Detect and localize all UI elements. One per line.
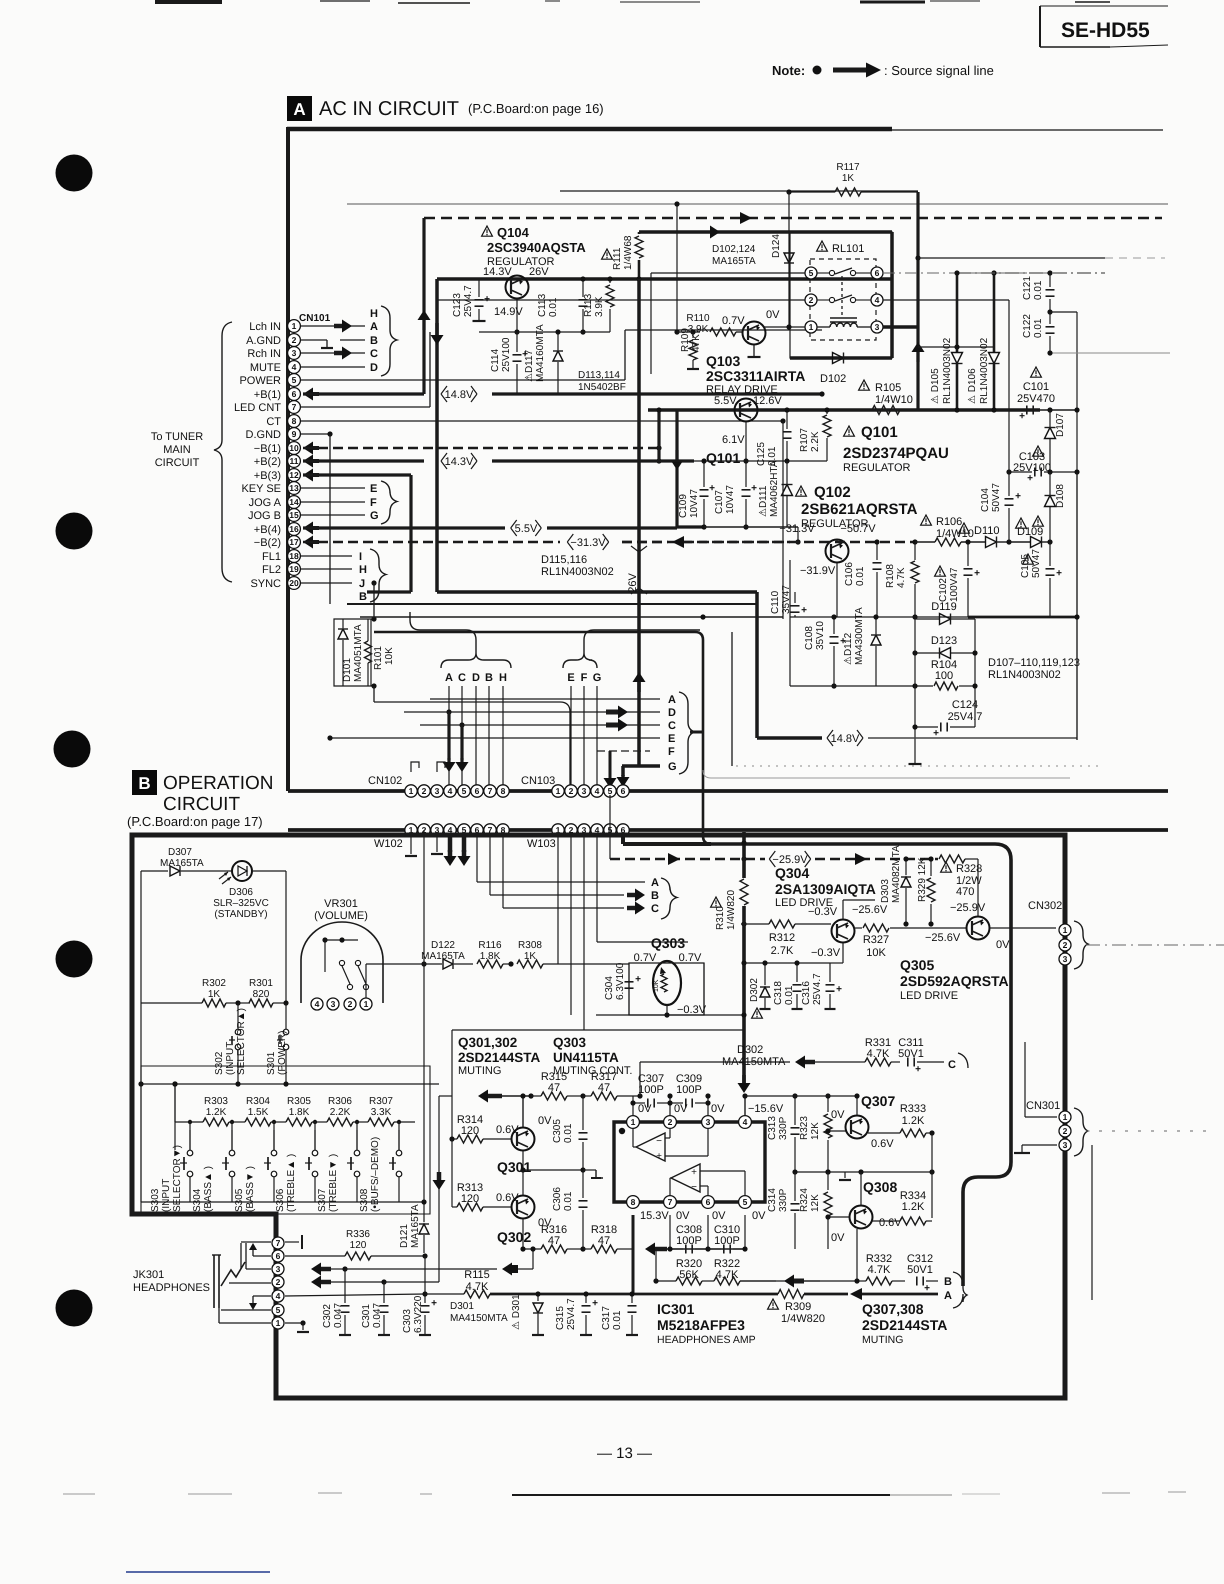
- rows to right letters: [404, 711, 660, 713]
- svg-text:5: 5: [743, 1197, 748, 1207]
- wire D122 row: [365, 964, 367, 998]
- svg-text:(INPUT: (INPUT: [161, 1179, 172, 1212]
- svg-text:— 13 —: — 13 —: [597, 1445, 652, 1462]
- relay pin 5: [805, 267, 817, 279]
- svg-text:3: 3: [331, 999, 336, 1009]
- svg-text:−B(1): −B(1): [254, 443, 281, 455]
- bus row W102: [288, 828, 1168, 832]
- svg-text:(BASS▲ ): (BASS▲ ): [203, 1166, 214, 1212]
- opamp 1: [636, 1133, 665, 1161]
- svg-text:−31.3V: −31.3V: [779, 523, 815, 535]
- svg-text:B: B: [138, 774, 150, 793]
- svg-text:−0.3V: −0.3V: [808, 906, 838, 918]
- node wire under Q102: [836, 580, 838, 617]
- svg-text:14.8V: 14.8V: [445, 389, 474, 401]
- tuner harness brace: [214, 322, 232, 582]
- svg-text:C122: C122: [1022, 314, 1033, 338]
- relay pin3 to bus thick: [883, 325, 918, 329]
- svg-text:+: +: [1027, 473, 1033, 484]
- svg-text:VR301: VR301: [324, 898, 358, 910]
- svg-text:D: D: [472, 672, 480, 684]
- wire Q303 bottom: [629, 1014, 704, 1016]
- transistor Q104: [506, 276, 529, 299]
- svg-text:0.01: 0.01: [563, 1191, 574, 1211]
- wire pin7 LED CNT: [301, 406, 430, 408]
- svg-text:(BASS▼ ): (BASS▼ ): [245, 1166, 256, 1212]
- svg-text:1N5402BF: 1N5402BF: [578, 382, 626, 393]
- svg-text:47: 47: [548, 1235, 560, 1247]
- svg-text:HEADPHONES: HEADPHONES: [133, 1282, 210, 1294]
- svg-text:(STANDBY): (STANDBY): [214, 909, 267, 920]
- svg-text:C108: C108: [804, 626, 815, 650]
- relay actuator dashed: [841, 276, 843, 318]
- svg-text:I: I: [359, 551, 362, 563]
- svg-text:16: 16: [289, 524, 299, 534]
- svg-text:RL101: RL101: [832, 243, 864, 255]
- jack tip contacts: [240, 1243, 242, 1269]
- svg-text:3: 3: [1063, 1140, 1068, 1150]
- svg-text:14.9V: 14.9V: [494, 306, 523, 318]
- svg-text:Q307: Q307: [861, 1093, 895, 1109]
- binder hole: [54, 731, 91, 768]
- svg-text:2: 2: [422, 786, 427, 796]
- Q308 emitter down: [856, 1229, 858, 1281]
- svg-text:+: +: [484, 294, 490, 305]
- dashed bus -25.9V: [609, 795, 611, 859]
- row A wire: [430, 698, 660, 700]
- bus hook to jack line: [439, 1095, 452, 1097]
- resistor R310 1/4W820: [711, 897, 722, 907]
- wire from D121 up: [423, 964, 425, 1202]
- svg-text:⚠ D301: ⚠ D301: [511, 1294, 522, 1330]
- svg-text:1K: 1K: [524, 951, 537, 962]
- svg-text:1: 1: [631, 1117, 636, 1127]
- switch row wiring: [175, 1121, 203, 1123]
- svg-text:100P: 100P: [714, 1235, 740, 1247]
- transistor Q304 symbol: [832, 920, 855, 943]
- svg-text:CN101: CN101: [299, 313, 331, 324]
- svg-text:0.7V: 0.7V: [679, 952, 702, 964]
- svg-text:R113: R113: [583, 293, 594, 317]
- relay pin 1: [805, 321, 817, 333]
- svg-text:S302: S302: [214, 1051, 225, 1075]
- svg-text:D302: D302: [749, 978, 760, 1002]
- svg-text:C105: C105: [1020, 554, 1031, 578]
- svg-text:1K: 1K: [208, 989, 221, 1000]
- svg-text:+: +: [924, 1283, 930, 1294]
- wire pin4 to D: [301, 366, 365, 368]
- transistor Q302: [512, 1196, 535, 1219]
- svg-text:⚠D111: ⚠D111: [758, 485, 769, 517]
- svg-text:E: E: [668, 733, 675, 745]
- svg-text:2SD2144STA: 2SD2144STA: [458, 1050, 541, 1065]
- arrow down to CN103 pin6 thick: [621, 766, 625, 776]
- svg-text:F: F: [370, 497, 377, 509]
- svg-text:A: A: [651, 877, 659, 889]
- svg-text:1/4W820: 1/4W820: [781, 1313, 825, 1325]
- svg-text:10V47: 10V47: [689, 489, 700, 518]
- svg-text:47: 47: [598, 1235, 610, 1247]
- svg-text:C106: C106: [844, 562, 855, 586]
- svg-text:−31.9V: −31.9V: [800, 565, 836, 577]
- svg-text:S301: S301: [266, 1051, 277, 1075]
- svg-text:RL1N4003N02: RL1N4003N02: [541, 566, 614, 578]
- binder hole: [56, 941, 93, 978]
- svg-text:Q305: Q305: [900, 957, 934, 973]
- svg-text:4: 4: [292, 362, 297, 372]
- svg-text:C: C: [370, 348, 378, 360]
- collector bus 26V: [437, 277, 892, 281]
- svg-text:R307: R307: [369, 1096, 393, 1107]
- svg-text:D113,114: D113,114: [578, 370, 620, 381]
- vertical from rail 204: [676, 204, 678, 332]
- relay drive bus: [712, 231, 720, 233]
- Q307 collector line up: [856, 1096, 858, 1115]
- opamp 2: [671, 1164, 700, 1192]
- wire D105 D106 top: [918, 346, 994, 348]
- svg-text:+: +: [1056, 568, 1062, 579]
- wire pin8 CT: [301, 420, 783, 422]
- wire relay pin5 row: [651, 272, 805, 274]
- bottom row 527: [704, 526, 798, 528]
- svg-text:D108: D108: [1055, 484, 1066, 508]
- svg-text:14.8V: 14.8V: [831, 733, 860, 745]
- transistor Q102 labels: [796, 486, 807, 496]
- harness rail 604: [347, 603, 757, 605]
- LED D306 standby: [232, 861, 252, 881]
- svg-text:100: 100: [935, 670, 953, 682]
- svg-text:10: 10: [289, 443, 299, 453]
- svg-text:CN102: CN102: [368, 775, 402, 787]
- svg-text:25V4.7: 25V4.7: [812, 973, 823, 1005]
- svg-text:+: +: [801, 605, 807, 616]
- svg-text:R117: R117: [836, 162, 860, 173]
- svg-text:15: 15: [289, 510, 299, 520]
- svg-text:−: −: [656, 1136, 662, 1147]
- svg-text:H: H: [370, 308, 378, 320]
- svg-text:4: 4: [276, 1291, 281, 1301]
- wire base row Q304: [741, 921, 746, 926]
- transistor Q104 labels: [482, 226, 493, 236]
- svg-text:120: 120: [350, 1240, 367, 1251]
- svg-text:1.2K: 1.2K: [902, 1201, 925, 1213]
- svg-text:−B(2): −B(2): [254, 537, 281, 549]
- svg-text:−25.9V: −25.9V: [950, 902, 986, 914]
- svg-text:2: 2: [348, 999, 353, 1009]
- svg-text:2: 2: [292, 335, 297, 345]
- jack spring contact: [221, 1262, 245, 1286]
- svg-text:1: 1: [276, 1318, 281, 1328]
- wire FL1 to I: [301, 555, 352, 557]
- svg-text:R105: R105: [875, 382, 901, 394]
- svg-text:⚠D117: ⚠D117: [524, 349, 535, 382]
- svg-text:+: +: [1019, 411, 1025, 422]
- svg-text:+: +: [751, 483, 757, 494]
- svg-text:C101: C101: [1023, 381, 1049, 393]
- svg-text:D124: D124: [771, 234, 782, 258]
- svg-text:330P: 330P: [778, 1116, 789, 1140]
- svg-text:4: 4: [315, 999, 320, 1009]
- bus row CN102: [288, 789, 1168, 793]
- wire pin5 POWER: [301, 379, 625, 381]
- svg-text:2SB621AQRSTA: 2SB621AQRSTA: [801, 501, 918, 518]
- svg-text:R327: R327: [863, 934, 889, 946]
- svg-text:Q307,308: Q307,308: [862, 1301, 924, 1317]
- svg-text:0V: 0V: [711, 1103, 725, 1115]
- svg-text:6: 6: [475, 786, 480, 796]
- wire SYNC to J: [301, 582, 352, 584]
- section label A: [287, 96, 312, 121]
- svg-text:W103: W103: [527, 838, 556, 850]
- D302 C318 C316 network: [744, 962, 830, 964]
- binder hole: [56, 1290, 93, 1327]
- svg-text:5.5V: 5.5V: [515, 523, 538, 535]
- wire pin9 D.GND: [301, 433, 330, 435]
- dotted row 766: [736, 765, 1100, 767]
- svg-text:D122: D122: [431, 940, 455, 951]
- svg-text:Q103: Q103: [706, 353, 740, 369]
- wire pin1 to A: [301, 325, 365, 327]
- svg-text:B: B: [359, 591, 367, 603]
- svg-text:C303: C303: [402, 1309, 413, 1333]
- bus +B(2) 14.3V: [311, 459, 319, 463]
- bus +B(4) 5.5V: [311, 526, 319, 530]
- diode D102 bottom: [789, 357, 791, 359]
- svg-text:E: E: [567, 672, 574, 684]
- wire relay row2 left: [437, 299, 805, 301]
- footer blue line: [126, 1571, 270, 1573]
- svg-text:25V470: 25V470: [1017, 393, 1055, 405]
- svg-text:25V4.7: 25V4.7: [566, 1298, 577, 1330]
- transistor Q103: [743, 322, 766, 345]
- resistor R328 1/2W 470: [941, 862, 952, 872]
- svg-text:C124: C124: [952, 699, 978, 711]
- main 12.6V bus: [648, 408, 918, 412]
- jack pins: [272, 1237, 284, 1249]
- svg-text:3: 3: [292, 348, 297, 358]
- switch bottom bus: [141, 1201, 424, 1203]
- svg-text:+: +: [915, 1064, 921, 1075]
- pin8 thick down: [632, 1215, 635, 1294]
- svg-text:C318: C318: [773, 981, 784, 1005]
- svg-text:C306: C306: [552, 1187, 563, 1211]
- svg-text:5: 5: [292, 375, 297, 385]
- svg-text:D110: D110: [974, 525, 999, 537]
- jack pin4 contact: [253, 1295, 271, 1297]
- svg-text:B: B: [944, 1276, 952, 1288]
- svg-text:FL1: FL1: [262, 551, 281, 563]
- svg-text:100P: 100P: [638, 1084, 664, 1096]
- section B border: [132, 835, 1065, 1398]
- svg-text:35V10: 35V10: [815, 621, 826, 650]
- svg-text:2SD2374PQAU: 2SD2374PQAU: [843, 445, 949, 462]
- svg-text:0.01: 0.01: [1033, 280, 1044, 300]
- svg-text:47: 47: [548, 1082, 560, 1094]
- footer rule: [512, 1494, 890, 1496]
- svg-text:3: 3: [276, 1264, 281, 1274]
- svg-text:1/4W820: 1/4W820: [726, 890, 737, 930]
- svg-text:100P: 100P: [676, 1235, 702, 1247]
- svg-text:1.2K: 1.2K: [902, 1115, 925, 1127]
- svg-text:0V: 0V: [712, 1210, 726, 1222]
- svg-text:R333: R333: [900, 1103, 926, 1115]
- svg-text:5: 5: [809, 268, 814, 278]
- svg-text:(P.C.Board:on page 16): (P.C.Board:on page 16): [468, 101, 604, 116]
- svg-text:S306: S306: [275, 1188, 286, 1212]
- svg-text:14: 14: [289, 497, 299, 507]
- svg-text:1: 1: [556, 786, 561, 796]
- svg-text:−0.3V: −0.3V: [811, 947, 841, 959]
- svg-text:E: E: [370, 483, 377, 495]
- transistor Q102 symbol: [826, 540, 849, 563]
- svg-text:3: 3: [1063, 954, 1068, 964]
- svg-text:0V: 0V: [752, 1210, 766, 1222]
- switch block top bus: [141, 1083, 439, 1085]
- brace CN102 harness: [441, 653, 511, 668]
- svg-text:D301: D301: [450, 1301, 474, 1312]
- svg-text:Note:: Note:: [772, 63, 805, 78]
- svg-text:7: 7: [668, 1197, 673, 1207]
- svg-text:MA4062HTA: MA4062HTA: [769, 460, 780, 517]
- dash dot line CN301: [1086, 1130, 1210, 1132]
- bus row with left arrow: [486, 1094, 502, 1099]
- svg-text:+B(1): +B(1): [254, 389, 281, 401]
- dashed bus -50.7V row: [820, 541, 915, 544]
- svg-text:C: C: [458, 672, 466, 684]
- Q308 collector up: [860, 1172, 862, 1205]
- svg-text:JOG A: JOG A: [249, 497, 282, 509]
- svg-text:−15.6V: −15.6V: [748, 1103, 784, 1115]
- pin2 row: [319, 1280, 331, 1285]
- svg-text:7: 7: [276, 1238, 281, 1248]
- wire pin2 to B: [340, 339, 365, 341]
- svg-text:+: +: [431, 1298, 437, 1309]
- svg-text:7: 7: [488, 786, 493, 796]
- relay pin 3: [871, 321, 883, 333]
- dashed source bus top: [424, 217, 1162, 220]
- svg-text:3: 3: [706, 1117, 711, 1127]
- signal arrows down to CN102: [447, 712, 450, 760]
- svg-text:UN4115TA: UN4115TA: [553, 1050, 619, 1065]
- capacitor C101 25V470: [1031, 367, 1042, 377]
- svg-text:C110: C110: [770, 590, 781, 614]
- svg-text:MA165TA: MA165TA: [410, 1204, 421, 1248]
- svg-text:M5218AFPE3: M5218AFPE3: [657, 1317, 745, 1333]
- svg-text:0.01: 0.01: [784, 985, 795, 1005]
- diode D110: [986, 537, 997, 548]
- svg-text:−25.6V: −25.6V: [852, 904, 888, 916]
- svg-text:4: 4: [595, 786, 600, 796]
- svg-text:FL2: FL2: [262, 564, 281, 576]
- svg-text:Lch IN: Lch IN: [249, 321, 281, 333]
- svg-text:6: 6: [875, 268, 880, 278]
- svg-text:2: 2: [1063, 940, 1068, 950]
- svg-text:MA165TA: MA165TA: [712, 256, 756, 267]
- svg-text:9: 9: [292, 429, 297, 439]
- svg-text:+B(2): +B(2): [254, 456, 281, 468]
- page top edge marks: [155, 0, 222, 4]
- wire D101 out: [374, 702, 570, 786]
- svg-text:7: 7: [292, 402, 297, 412]
- svg-text:REGULATOR: REGULATOR: [843, 462, 910, 474]
- wire JOG A to F: [301, 501, 365, 503]
- svg-text:MAIN: MAIN: [163, 444, 191, 456]
- svg-text:13: 13: [289, 483, 299, 493]
- svg-text:D102,124: D102,124: [712, 244, 756, 255]
- svg-text:D307: D307: [168, 847, 192, 858]
- muting box outline: [452, 1029, 744, 1031]
- svg-text:1.5K: 1.5K: [248, 1107, 269, 1118]
- svg-text:5: 5: [276, 1305, 281, 1315]
- relay pin 2: [805, 294, 817, 306]
- svg-text:A: A: [944, 1290, 952, 1302]
- gray row 778: [703, 770, 1070, 778]
- resistor R106 1/4W10: [921, 515, 932, 525]
- svg-text:2SC3940AQSTA: 2SC3940AQSTA: [487, 240, 586, 255]
- relay RL101 label: [817, 241, 828, 251]
- svg-text:1K: 1K: [842, 173, 855, 184]
- svg-text:C316: C316: [801, 981, 812, 1005]
- svg-text:C123: C123: [452, 293, 463, 317]
- svg-text:3: 3: [875, 322, 880, 332]
- svg-text:H: H: [499, 672, 507, 684]
- svg-text:+B(4): +B(4): [254, 524, 281, 536]
- wire relay pin4 row: [883, 299, 1009, 301]
- svg-text:1: 1: [1063, 925, 1068, 935]
- svg-text:+: +: [592, 1298, 598, 1309]
- svg-text:12: 12: [289, 470, 299, 480]
- svg-text:0.7V: 0.7V: [722, 315, 745, 327]
- svg-text:C305: C305: [552, 1119, 563, 1143]
- svg-text:C104: C104: [980, 488, 991, 512]
- svg-text:D121: D121: [399, 1224, 410, 1248]
- svg-text:C304: C304: [604, 976, 615, 1000]
- svg-text:6: 6: [292, 389, 297, 399]
- svg-text:⚠ D106: ⚠ D106: [967, 368, 978, 404]
- thick G row: [622, 764, 660, 768]
- svg-text:5.5V: 5.5V: [714, 395, 737, 407]
- capacitor C102 100V47: [935, 566, 946, 576]
- svg-text:C315: C315: [555, 1306, 566, 1330]
- svg-text:R306: R306: [328, 1096, 352, 1107]
- svg-text:1: 1: [292, 321, 297, 331]
- svg-text:0.01: 0.01: [548, 297, 559, 317]
- svg-text:⚠D112: ⚠D112: [843, 632, 854, 665]
- svg-text:C302: C302: [322, 1304, 333, 1328]
- svg-text:3: 3: [582, 786, 587, 796]
- svg-text:10K: 10K: [384, 647, 395, 665]
- brace output stub: [690, 731, 703, 734]
- Q303 box: [629, 963, 704, 1015]
- binder hole: [56, 155, 93, 192]
- brace CN103 harness: [563, 653, 597, 668]
- svg-text:1: 1: [809, 322, 814, 332]
- svg-text:−: −: [691, 1182, 697, 1193]
- svg-text:F: F: [581, 672, 588, 684]
- svg-text:2SD2144STA: 2SD2144STA: [862, 1317, 947, 1333]
- svg-text:POWER: POWER: [239, 375, 281, 387]
- svg-text:D115,116: D115,116: [541, 554, 587, 566]
- svg-text:R303: R303: [204, 1096, 228, 1107]
- section A top border: [287, 127, 892, 132]
- B row bus: [740, 1280, 776, 1282]
- svg-text:470: 470: [956, 886, 974, 898]
- wire right vertical 1092: [1091, 1145, 1093, 1300]
- svg-text:D.GND: D.GND: [246, 429, 282, 441]
- svg-text:12K: 12K: [810, 1194, 821, 1212]
- svg-text:MUTE: MUTE: [250, 362, 281, 374]
- svg-text:R308: R308: [518, 940, 542, 951]
